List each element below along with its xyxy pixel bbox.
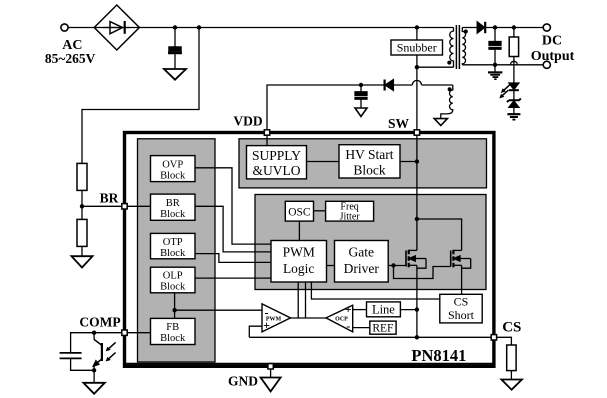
svg-text:SUPPLY: SUPPLY xyxy=(252,148,301,163)
svg-text:OCP: OCP xyxy=(335,316,348,322)
svg-text:BR: BR xyxy=(100,191,119,206)
svg-text:OVP: OVP xyxy=(162,160,183,171)
svg-text:CS: CS xyxy=(454,295,469,309)
svg-text:Driver: Driver xyxy=(344,261,380,276)
svg-text:OSC: OSC xyxy=(288,207,311,219)
svg-text:Block: Block xyxy=(160,209,186,220)
svg-text:BR: BR xyxy=(166,198,180,209)
svg-text:REF: REF xyxy=(372,323,393,335)
svg-text:Jitter: Jitter xyxy=(340,212,361,223)
svg-text:HV Start: HV Start xyxy=(345,147,393,162)
svg-text:Logic: Logic xyxy=(283,261,315,276)
svg-text:Gate: Gate xyxy=(349,245,374,260)
svg-text:OTP: OTP xyxy=(163,237,183,248)
svg-text:SW: SW xyxy=(388,116,410,131)
svg-text:VDD: VDD xyxy=(233,114,262,129)
svg-text:DC: DC xyxy=(542,34,562,49)
svg-text:Short: Short xyxy=(448,308,475,322)
svg-text:Snubber: Snubber xyxy=(397,41,437,55)
svg-text:Block: Block xyxy=(160,248,186,259)
svg-text:Block: Block xyxy=(353,163,385,178)
svg-text:85~265V: 85~265V xyxy=(45,51,96,66)
svg-text:&UVLO: &UVLO xyxy=(253,163,301,178)
svg-text:Line: Line xyxy=(372,303,395,317)
svg-text:FB: FB xyxy=(166,322,179,333)
svg-text:Block: Block xyxy=(160,333,186,344)
svg-text:COMP: COMP xyxy=(79,315,120,330)
svg-text:+: + xyxy=(345,302,352,316)
svg-text:GND: GND xyxy=(228,374,258,389)
svg-text:PWM: PWM xyxy=(283,245,315,260)
svg-text:OLP: OLP xyxy=(163,271,183,282)
svg-text:PWM: PWM xyxy=(266,317,282,323)
svg-text:Output: Output xyxy=(531,49,575,64)
svg-text:Block: Block xyxy=(160,171,186,182)
svg-text:CS: CS xyxy=(502,320,521,336)
svg-text:Block: Block xyxy=(160,282,186,293)
svg-text:PN8141: PN8141 xyxy=(411,346,466,365)
